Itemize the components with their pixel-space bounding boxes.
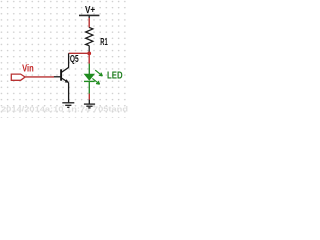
- svg-text:LED: LED: [107, 71, 123, 82]
- svg-text:V+: V+: [85, 5, 95, 16]
- svg-text:Vin: Vin: [22, 63, 34, 74]
- wire: Vin port to Q5 base: [25, 76, 54, 78]
- transistor Q5: [54, 53, 69, 102]
- wire: R1/LED junction to Q5 collector: [69, 52, 90, 54]
- svg-text:2014/2014a:10 1n:74 705tand: 2014/2014a:10 1n:74 705tand: [1, 104, 128, 113]
- wire: junction down to LED anode: [88, 53, 90, 64]
- wire: V+ to resistor R1 top: [88, 18, 90, 28]
- ground (LED): [84, 100, 95, 108]
- svg-text:Q5: Q5: [70, 54, 79, 65]
- port Vin: [11, 74, 25, 80]
- svg-text:R1: R1: [100, 37, 108, 48]
- ground (emitter): [62, 103, 74, 108]
- junction node dot: [87, 52, 91, 56]
- resistor R1: [86, 27, 93, 52]
- power symbol V+: [79, 15, 99, 18]
- LED D1: [84, 64, 103, 94]
- wire: LED cathode to ground: [88, 94, 90, 100]
